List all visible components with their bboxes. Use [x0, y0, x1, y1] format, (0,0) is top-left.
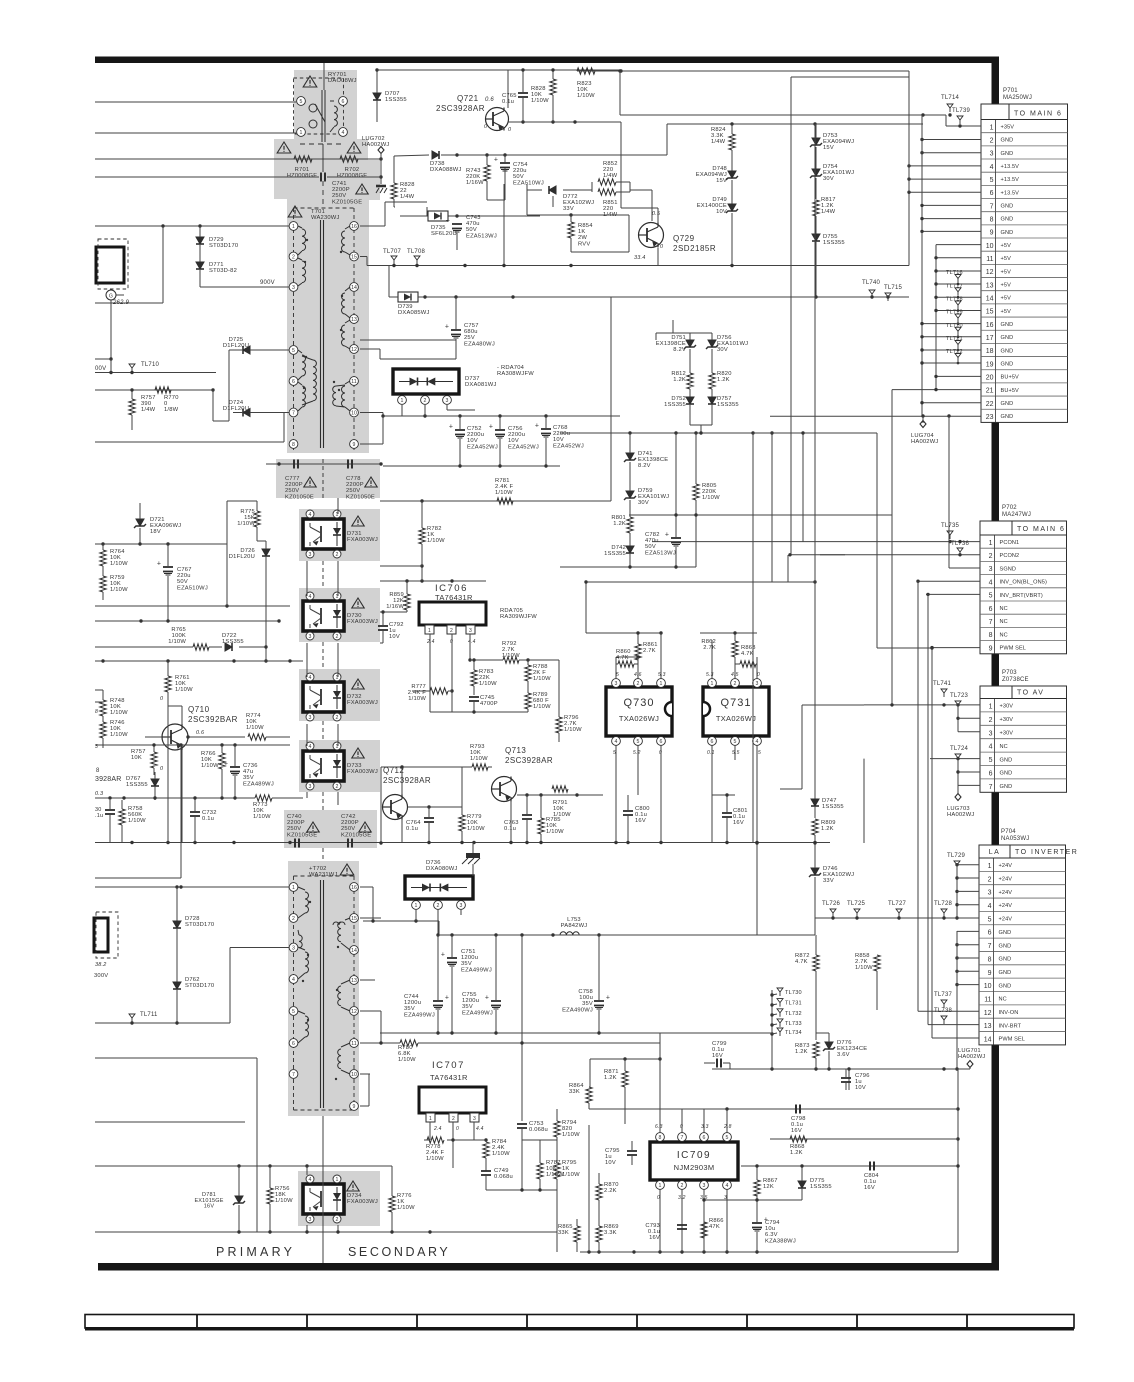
zener D749: [726, 204, 738, 264]
svg-text:15: 15: [986, 309, 994, 316]
label R773: [253, 802, 271, 820]
svg-text:2: 2: [336, 715, 339, 721]
svg-text:TO MAIN 6: TO MAIN 6: [1014, 110, 1062, 117]
wire: [0, 0, 1, 1]
resistor R783: [471, 658, 477, 695]
svg-text:+: +: [445, 995, 449, 1002]
svg-text:NC: NC: [999, 997, 1007, 1003]
resistor R778: [427, 1137, 444, 1143]
svg-text:LUG701HA002WJ: LUG701HA002WJ: [958, 1048, 986, 1060]
wire: [814, 918, 816, 935]
label: [426, 639, 476, 645]
shaded region opto D733: [299, 740, 380, 792]
svg-text:2: 2: [336, 784, 339, 790]
zener D721: [134, 511, 146, 544]
svg-text:4: 4: [309, 675, 312, 681]
label C792: [389, 622, 404, 640]
dual diode D736: [405, 876, 473, 899]
diode D728: [173, 921, 181, 950]
label D775: [810, 1178, 832, 1190]
wire: [589, 1107, 760, 1110]
svg-text:R76410K1/10W: R76410K1/10W: [110, 549, 128, 567]
svg-text:R82810K1/10W: R82810K1/10W: [531, 86, 549, 104]
wire: [470, 658, 559, 661]
wire: [0, 0, 1, 1]
wire: [814, 124, 816, 799]
svg-text:TA76431R: TA76431R: [430, 1073, 468, 1082]
resistor R780: [381, 1040, 660, 1046]
svg-text:3: 3: [469, 628, 472, 634]
svg-text:3928AR: 3928AR: [95, 776, 122, 783]
wire: [0, 0, 1, 1]
wire: [791, 540, 980, 543]
label C794: [765, 1220, 796, 1244]
wire: [558, 660, 560, 717]
svg-text:Q731: Q731: [721, 697, 752, 709]
svg-text:8: 8: [95, 709, 98, 715]
test point TL707: [383, 249, 401, 264]
svg-text:2.4: 2.4: [433, 1126, 442, 1132]
svg-text:13: 13: [984, 1023, 992, 1030]
capacitor C754: [494, 155, 510, 185]
wire: [760, 1069, 960, 1111]
resistor R864: [586, 1087, 592, 1109]
resistor R770: [155, 387, 171, 393]
wire: [660, 1032, 772, 1034]
svg-text:C767220u50VEZA510WJ: C767220u50VEZA510WJ: [177, 567, 208, 591]
svg-text:TL725: TL725: [847, 901, 865, 907]
warning triangle: [352, 598, 364, 608]
svg-text:R743220K1/16W: R743220K1/16W: [466, 168, 484, 186]
svg-text:D7071SS355: D7071SS355: [385, 91, 407, 103]
svg-text:11: 11: [351, 379, 356, 385]
svg-text:R789680 F1/10W: R789680 F1/10W: [533, 692, 551, 710]
label C756: [508, 426, 539, 450]
svg-text:R74810K1/10W: R74810K1/10W: [110, 698, 128, 716]
svg-text:NJM2903M: NJM2903M: [674, 1163, 715, 1172]
svg-text:+13.5V: +13.5V: [1001, 190, 1020, 196]
resistor R795: [554, 1140, 560, 1190]
shaded region R701 R702 C741: [274, 139, 380, 200]
wire: [110, 359, 112, 373]
svg-text:0.1: 0.1: [707, 750, 715, 756]
svg-text:R75710K: R75710K: [131, 749, 146, 761]
wire: [540, 1190, 557, 1252]
resistor R812: [687, 371, 693, 397]
wire: [389, 295, 611, 298]
label C764: [406, 820, 421, 832]
wire: [615, 746, 617, 843]
resistor R788: [525, 660, 531, 690]
wire: [360, 202, 427, 226]
wire: [907, 164, 981, 194]
svg-text:R8604.7K: R8604.7K: [616, 649, 631, 661]
svg-text:R8541K2WRVV: R8541K2WRVV: [578, 223, 593, 247]
wire: [95, 1121, 245, 1123]
label D752: [664, 396, 686, 408]
svg-text:NC: NC: [1000, 619, 1008, 625]
test point TL729: [947, 853, 965, 869]
warning triangle: [304, 477, 316, 487]
svg-text:10: 10: [986, 243, 994, 250]
svg-text:3: 3: [309, 552, 312, 558]
label D749: [697, 197, 727, 215]
svg-text:GND: GND: [1001, 138, 1014, 144]
label Q729: [673, 234, 716, 253]
wire: [882, 1164, 960, 1167]
svg-text:GND: GND: [1001, 230, 1014, 236]
wire: [415, 909, 417, 921]
wire: [95, 885, 289, 888]
border right bar: [992, 57, 1000, 1270]
wire: [920, 231, 981, 417]
test point TL723: [950, 693, 968, 709]
label R788: [533, 664, 551, 682]
svg-text:R8522201/4W: R8522201/4W: [603, 161, 618, 179]
resistor R872: [813, 935, 819, 1040]
svg-text:7: 7: [989, 784, 993, 791]
resistor R757b: [129, 388, 135, 430]
svg-text:R7812.4K F1/10W: R7812.4K F1/10W: [495, 478, 514, 496]
diode D775: [798, 1166, 806, 1200]
resistor R781: [497, 498, 513, 504]
capacitor C745: [469, 697, 479, 712]
svg-text:D7421SS355: D7421SS355: [604, 545, 626, 557]
resistor R828: [391, 156, 397, 207]
wire: [430, 1122, 486, 1168]
svg-text:3: 3: [615, 681, 618, 687]
wire: [487, 185, 505, 200]
label D736: [426, 860, 458, 872]
wire: [946, 113, 981, 127]
wire: [702, 1198, 802, 1201]
label R828b: [531, 86, 549, 104]
svg-text:4: 4: [342, 130, 345, 136]
wire: [712, 793, 735, 796]
svg-text:1: 1: [989, 704, 993, 711]
svg-text:+: +: [157, 561, 161, 568]
svg-text:D753EXA094WJ15V: D753EXA094WJ15V: [823, 133, 854, 151]
optocoupler D733: [303, 742, 344, 790]
capacitor C749: [481, 1171, 491, 1190]
svg-text:D7671SS355: D7671SS355: [126, 776, 148, 788]
svg-text:+: +: [449, 424, 453, 431]
connector P703 TO AV: [980, 670, 1067, 792]
warning triangle: [352, 679, 364, 689]
test point TL738: [934, 1008, 952, 1024]
svg-text:10: 10: [351, 1072, 357, 1078]
svg-text:+: +: [489, 424, 493, 431]
boxed diode D739: [398, 292, 418, 302]
svg-text:GND: GND: [999, 957, 1012, 963]
svg-text:D748EXA094WJ15V: D748EXA094WJ15V: [696, 166, 727, 184]
label D725: [223, 337, 249, 349]
wire: [379, 765, 403, 844]
svg-text:0: 0: [680, 1124, 683, 1130]
label R864: [569, 1083, 584, 1095]
svg-text:2: 2: [292, 255, 295, 261]
svg-text:7: 7: [990, 203, 994, 210]
resistor R861: [635, 633, 641, 664]
label T702: [309, 866, 338, 878]
label Q721: [436, 94, 512, 133]
capacitor C764: [424, 807, 434, 842]
svg-text:GND: GND: [1001, 401, 1014, 407]
label R794: [562, 1120, 580, 1138]
svg-text:R8171.2K1/4W: R8171.2K1/4W: [821, 197, 836, 215]
wire: [916, 580, 980, 583]
label RDA705: [500, 608, 537, 620]
wire: [486, 1188, 557, 1191]
label IC706: [435, 583, 473, 602]
wire: [380, 297, 611, 503]
wire: [380, 579, 486, 582]
wire: [521, 935, 523, 1121]
label C793: [645, 1223, 660, 1241]
capacitor C801: [722, 795, 732, 842]
warning triangle: [277, 142, 291, 153]
capacitor C742: [341, 814, 371, 848]
wire: [360, 1011, 381, 1043]
svg-text:C7980.1u16V: C7980.1u16V: [791, 1116, 806, 1134]
label C741: [332, 181, 362, 205]
label D729: [209, 237, 238, 249]
svg-text:14: 14: [986, 295, 994, 302]
svg-text:13: 13: [986, 282, 994, 289]
svg-text:D771ST03D-82: D771ST03D-82: [209, 262, 237, 274]
connector P702 TO MAIN 6: [980, 505, 1067, 654]
svg-text:TL724: TL724: [950, 746, 968, 752]
svg-text:11: 11: [984, 996, 991, 1003]
label R869: [604, 1224, 619, 1236]
svg-text:8: 8: [659, 1135, 662, 1141]
svg-text:TL730: TL730: [785, 990, 802, 996]
wire P701 row stubs: [920, 115, 981, 231]
svg-text:TL739: TL739: [952, 108, 970, 114]
wire: [652, 541, 791, 543]
capacitor C799: [712, 1041, 727, 1068]
wire: [0, 0, 1, 1]
label C778: [346, 476, 375, 500]
svg-text:1: 1: [711, 681, 714, 687]
svg-text:4: 4: [756, 739, 759, 745]
resistor R758: [119, 800, 125, 843]
wire: [0, 0, 1, 1]
capacitor C795: [627, 1141, 637, 1165]
wire: [168, 705, 245, 739]
svg-text:D726D1FL20U: D726D1FL20U: [229, 548, 255, 560]
svg-text:4.4: 4.4: [468, 639, 476, 645]
svg-text:R7882K F1/10W: R7882K F1/10W: [533, 664, 551, 682]
svg-text:2: 2: [336, 552, 339, 558]
wire: [908, 71, 910, 266]
svg-text:+: +: [441, 952, 445, 959]
wire: [0, 0, 1, 1]
svg-text:1: 1: [990, 124, 994, 131]
wire: [526, 190, 528, 215]
transformer T702 core: [294, 876, 355, 1110]
svg-text:C7530.068u: C7530.068u: [529, 1121, 548, 1133]
svg-text:GND: GND: [999, 983, 1012, 989]
capacitor C796: [841, 1069, 851, 1090]
resistor R701: [294, 156, 312, 162]
svg-text:9: 9: [990, 230, 994, 237]
svg-text:C73647u35VEZA489WJ: C73647u35VEZA489WJ: [243, 763, 274, 787]
wire: [955, 863, 979, 866]
svg-text:TL715: TL715: [884, 285, 902, 291]
wire: [864, 703, 980, 706]
test point TL714: [941, 95, 959, 112]
svg-text:2: 2: [450, 628, 453, 634]
wire: [949, 416, 980, 568]
wire: [752, 433, 754, 843]
label R872: [795, 953, 810, 965]
svg-text:4: 4: [990, 164, 994, 171]
svg-text:7: 7: [292, 1072, 295, 1078]
svg-text:C7930.1u16V: C7930.1u16V: [645, 1223, 660, 1241]
svg-text:16: 16: [986, 322, 994, 329]
wire: [611, 295, 909, 298]
wire: [770, 431, 773, 582]
label R862: [701, 639, 716, 651]
wire: [586, 631, 663, 664]
svg-text:TXA026WJ: TXA026WJ: [716, 714, 756, 723]
resistor R817: [813, 200, 819, 234]
svg-text:R82310K1/10W: R82310K1/10W: [577, 81, 595, 99]
resistor R784: [483, 1140, 489, 1171]
resistor R756: [267, 1166, 273, 1232]
svg-text:21: 21: [986, 388, 994, 395]
wire: [0, 0, 1, 1]
svg-text:D7521SS355: D7521SS355: [664, 396, 686, 408]
wire: [145, 736, 162, 738]
resistor R858: [874, 955, 880, 1010]
pins D737: [398, 396, 452, 405]
svg-text:R758560K1/10W: R758560K1/10W: [128, 806, 146, 824]
IC Q731: [703, 664, 769, 760]
svg-text:R8731.2K: R8731.2K: [795, 1043, 810, 1055]
label: [112, 300, 129, 306]
wire: [527, 213, 629, 216]
label D767: [126, 776, 148, 788]
label R858: [855, 953, 873, 971]
label D728: [185, 916, 214, 928]
wire: [383, 464, 560, 467]
diode D755: [812, 234, 820, 297]
resistor R785: [538, 795, 544, 842]
svg-text:R805220K1/10W: R805220K1/10W: [702, 483, 720, 501]
wire: [657, 208, 659, 223]
svg-text:33.4: 33.4: [634, 255, 646, 261]
svg-text:12: 12: [351, 1009, 357, 1015]
wire: [383, 264, 661, 297]
svg-text:1: 1: [292, 224, 295, 230]
label Q713: [505, 746, 553, 765]
label R867: [763, 1178, 778, 1190]
label RDA704: [497, 365, 534, 377]
resistor R793: [472, 764, 488, 770]
svg-text:TL732: TL732: [785, 1011, 802, 1017]
svg-text:+: +: [494, 157, 498, 164]
svg-text:R86433K: R86433K: [569, 1083, 584, 1095]
svg-text:GND: GND: [1000, 757, 1013, 763]
IC706 pins: [425, 625, 475, 634]
svg-text:LUG704HA002WJ: LUG704HA002WJ: [911, 433, 939, 445]
wire: [560, 431, 755, 434]
svg-text:TL735: TL735: [941, 523, 959, 529]
label D776: [837, 1040, 867, 1058]
svg-text:2: 2: [681, 1183, 684, 1189]
svg-text:11: 11: [986, 256, 993, 263]
svg-text:20: 20: [986, 375, 994, 382]
svg-text:2: 2: [988, 876, 992, 883]
label C782: [645, 532, 676, 556]
svg-text:5: 5: [726, 1135, 729, 1141]
svg-text:P702MA247WJ: P702MA247WJ: [1002, 505, 1031, 518]
label D722: [222, 633, 244, 645]
wire: [212, 390, 214, 421]
svg-text:+24V: +24V: [999, 877, 1013, 883]
svg-text:R8243.3K1/4W: R8243.3K1/4W: [711, 127, 726, 145]
svg-text:0.3: 0.3: [95, 791, 104, 797]
svg-text:NC: NC: [1000, 632, 1008, 638]
svg-text:2: 2: [989, 717, 993, 724]
IC706 box: [419, 602, 486, 625]
svg-text:9: 9: [989, 645, 993, 652]
wire: [539, 1140, 541, 1190]
svg-text:R7806.8K1/10W: R7806.8K1/10W: [398, 1045, 416, 1063]
test points TL726 TL725 TL727 TL728: [822, 901, 952, 917]
resistor R805: [693, 433, 699, 567]
label R866: [709, 1218, 724, 1230]
label D748: [696, 166, 727, 184]
svg-text:D741EX1398CE8.2V: D741EX1398CE8.2V: [638, 451, 668, 469]
wire: [200, 280, 289, 287]
resistor R766b: [219, 745, 225, 798]
wire: [667, 122, 923, 155]
svg-text:23: 23: [986, 414, 994, 421]
svg-text:3: 3: [988, 890, 992, 897]
wire: [360, 416, 383, 444]
svg-text:4: 4: [988, 903, 992, 910]
capacitor C793: [677, 1225, 687, 1229]
IC709 box: [650, 1142, 738, 1180]
svg-text:R76110K1/10W: R76110K1/10W: [175, 675, 193, 693]
resistor R759: [100, 572, 106, 600]
wire: [820, 554, 845, 556]
label R865: [558, 1224, 573, 1236]
wire: [407, 766, 492, 768]
svg-text:2: 2: [336, 1217, 339, 1223]
svg-text:+5V: +5V: [1001, 243, 1012, 249]
shaded region C777 C778: [276, 459, 380, 498]
svg-text:D736DXA080WJ: D736DXA080WJ: [426, 860, 458, 872]
svg-text:D739DXA085WJ: D739DXA085WJ: [398, 304, 430, 316]
svg-text:1: 1: [415, 903, 418, 909]
wire: [95, 70, 508, 159]
svg-text:5: 5: [292, 1009, 295, 1015]
label R746: [110, 720, 128, 738]
wire: [629, 513, 892, 516]
wire: [892, 375, 981, 515]
wire: [0, 0, 1, 1]
resistor R860: [616, 655, 640, 667]
wire: [95, 542, 227, 545]
warning triangle RY701: [303, 76, 317, 87]
svg-text:PCON2: PCON2: [1000, 553, 1020, 559]
label C732: [202, 810, 217, 822]
test points TL730-734: [777, 988, 802, 1036]
